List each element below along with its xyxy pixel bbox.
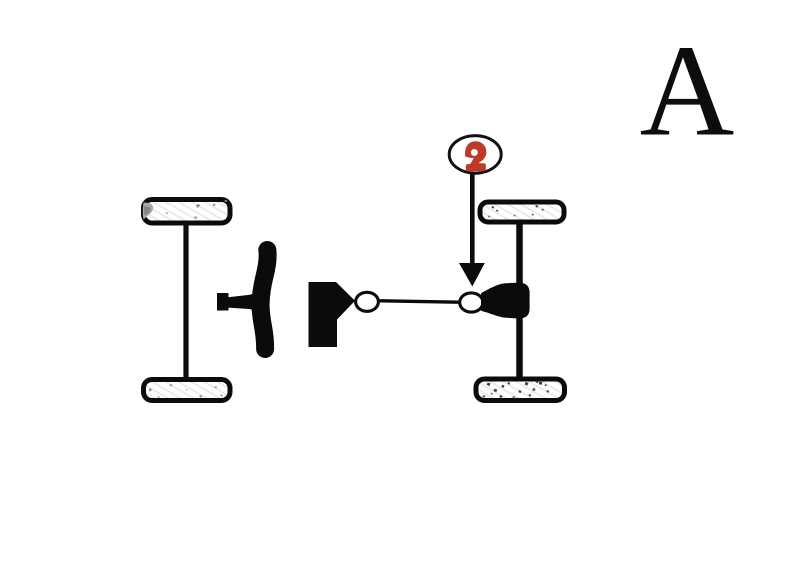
universal joint 2 (rear, indicated) bbox=[460, 293, 483, 312]
universal joint 1 (front) bbox=[356, 292, 379, 311]
front axle shaft bbox=[183, 221, 188, 381]
pointer line from balloon bbox=[470, 175, 475, 265]
differential housing bbox=[481, 283, 530, 319]
propeller shaft bbox=[379, 301, 459, 302]
steering column shaft bbox=[228, 290, 260, 314]
wheel rear-left (bottom-left tyre) bbox=[144, 380, 231, 401]
wheel rear-right-bottom (bottom-right tyre) bbox=[476, 379, 565, 401]
label digit 2 (red) bbox=[465, 141, 486, 171]
callout balloon for label 2 bbox=[449, 136, 501, 174]
rear axle shaft bbox=[516, 221, 523, 381]
gearbox / transfer case bbox=[309, 282, 356, 347]
wheel rear-right-top (top-right tyre) bbox=[480, 202, 564, 222]
steering wheel (side view) bbox=[261, 250, 268, 349]
wheel front-left (top-left tyre) bbox=[143, 200, 230, 224]
steering column end cap bbox=[217, 293, 229, 311]
svg-text:A: A bbox=[640, 19, 735, 164]
pointer arrowhead bbox=[459, 263, 485, 287]
